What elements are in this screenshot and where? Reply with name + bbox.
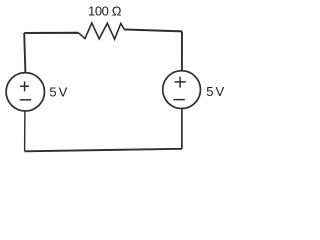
wire left lower segment xyxy=(24,111,26,151)
svg-text:5 V: 5 V xyxy=(49,85,67,100)
wire bottom segment xyxy=(25,149,182,152)
V1 minus sign xyxy=(20,99,31,101)
V2 minus sign xyxy=(174,99,185,101)
svg-text:100 Ω: 100 Ω xyxy=(88,4,122,19)
wire top-left segment xyxy=(24,32,78,34)
voltage source V2 circle xyxy=(163,71,201,109)
wire top-right segment xyxy=(124,30,182,32)
wire right lower segment xyxy=(181,108,183,148)
svg-text:5 V: 5 V xyxy=(206,84,224,99)
resistor R1 zigzag xyxy=(78,23,124,39)
voltage source V1 circle xyxy=(6,73,44,111)
wire left upper segment xyxy=(24,33,25,73)
V1 plus sign xyxy=(20,81,29,91)
V2 plus sign xyxy=(175,77,186,88)
wire right upper segment xyxy=(181,31,183,70)
